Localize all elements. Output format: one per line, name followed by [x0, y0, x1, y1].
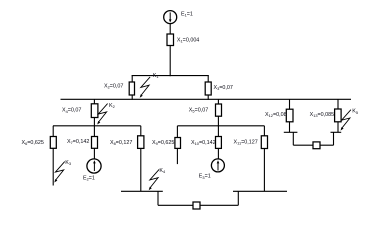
svg-text:X5=0,07: X5=0,07 — [189, 108, 208, 114]
svg-text:E2=1: E2=1 — [83, 176, 95, 182]
svg-text:K3: K3 — [65, 160, 71, 166]
svg-text:X1=0,004: X1=0,004 — [177, 37, 199, 43]
svg-text:X10=0,142: X10=0,142 — [191, 140, 216, 146]
svg-text:E3=1: E3=1 — [199, 174, 211, 180]
svg-text:X7=0,142: X7=0,142 — [67, 139, 89, 145]
svg-text:X8=0,127: X8=0,127 — [110, 140, 132, 146]
svg-text:E1=1: E1=1 — [181, 11, 193, 17]
svg-text:K4: K4 — [159, 168, 166, 174]
svg-text:K1: K1 — [153, 73, 159, 79]
svg-text:K5: K5 — [352, 109, 358, 115]
svg-text:X13=0,085: X13=0,085 — [310, 112, 335, 118]
svg-text:X2=0,07: X2=0,07 — [104, 84, 123, 90]
svg-text:X3=0,07: X3=0,07 — [214, 85, 233, 91]
svg-text:X12=0,08: X12=0,08 — [265, 112, 287, 118]
svg-text:X6=0,625: X6=0,625 — [22, 140, 44, 146]
svg-text:X9=0,625: X9=0,625 — [152, 140, 174, 146]
svg-text:X4=0,07: X4=0,07 — [62, 108, 81, 114]
svg-text:K2: K2 — [109, 103, 115, 109]
svg-text:X11=0,127: X11=0,127 — [234, 140, 258, 146]
